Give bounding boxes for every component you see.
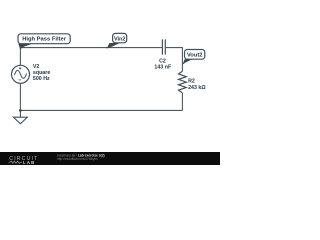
flag Vin2 box <box>113 33 127 42</box>
svg-text:V2: V2 <box>33 64 40 70</box>
flag High Pass Filter pointer <box>18 44 33 50</box>
flag Vin2 pointer <box>107 43 120 49</box>
voltage source V2 circle <box>12 65 30 83</box>
svg-text:R2: R2 <box>188 79 195 85</box>
flag High Pass Filter box <box>18 34 70 44</box>
wire top horizontal source-to-capacitor <box>20 47 162 49</box>
svg-text:Vout2: Vout2 <box>187 53 203 59</box>
svg-text:High Pass Filter: High Pass Filter <box>22 37 67 43</box>
svg-text:143 nF: 143 nF <box>154 64 172 70</box>
voltage source minus sign <box>19 79 22 81</box>
wire left vertical upper stub <box>19 47 21 65</box>
footer logo resistor zigzag <box>9 161 22 163</box>
footer bar <box>0 152 220 165</box>
junction ground node <box>19 109 22 112</box>
capacitor C2 plates <box>162 39 165 54</box>
svg-text:Vin2: Vin2 <box>114 36 126 42</box>
wire right vertical corner-to-resistor <box>181 47 183 71</box>
voltage source plus sign <box>19 67 21 69</box>
flag Vout2 box <box>185 50 205 60</box>
voltage source sine symbol <box>14 70 26 78</box>
ground stub wire <box>19 110 21 117</box>
svg-text:243 kΩ: 243 kΩ <box>188 85 206 91</box>
svg-text:http://circuitlab.com/c7fdkybc: http://circuitlab.com/c7fdkybc <box>57 157 98 161</box>
svg-text:500 Hz: 500 Hz <box>33 76 50 82</box>
wire top horizontal capacitor-to-corner <box>166 47 183 49</box>
svg-text:LAB: LAB <box>23 160 35 165</box>
wire left vertical lower stub <box>19 83 21 110</box>
flag Vout2 pointer <box>182 59 192 65</box>
ground symbol triangle <box>13 117 27 124</box>
wire bottom horizontal <box>20 109 182 111</box>
wire right vertical resistor-to-bottom <box>181 93 183 111</box>
resistor R2 zigzag <box>179 71 187 93</box>
